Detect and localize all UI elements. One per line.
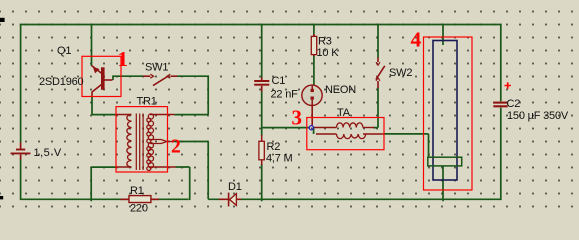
svg-text:C2: C2 <box>507 98 521 110</box>
selection box around Q1 <box>82 56 121 96</box>
wire left bus lower <box>20 159 22 199</box>
wire tube top lead <box>442 24 444 45</box>
wire TA to tube trigger band <box>384 134 429 157</box>
svg-text:R3: R3 <box>318 36 332 48</box>
capacitor C1 22nF <box>254 77 269 91</box>
wire TR1 mid pin to D1 via bottom <box>174 142 219 200</box>
wire Q1 base to SW1 <box>112 76 143 80</box>
resistor R3 10K <box>311 34 316 56</box>
svg-text:TR1: TR1 <box>137 96 157 108</box>
diode D1 <box>219 193 241 207</box>
wire D1 to C2 bottom bus <box>241 198 501 200</box>
capacitor C2 150uF 350V <box>493 103 507 107</box>
svg-text:1: 1 <box>118 47 129 71</box>
wire left bus upper <box>20 24 22 143</box>
wire SW1 to TR1 top-right pin <box>174 75 208 114</box>
resistor R1 220 <box>121 196 160 203</box>
wire R3 drop from bus <box>313 24 315 37</box>
svg-text:2SD1960: 2SD1960 <box>39 76 84 88</box>
wire R3 to NEON <box>313 55 315 85</box>
svg-text:2: 2 <box>171 137 181 158</box>
wire R2 column <box>261 128 263 202</box>
junction node (blue ring) at TA input <box>309 126 313 130</box>
wire Q1 collector drop <box>91 24 93 66</box>
svg-text:D1: D1 <box>228 181 242 193</box>
flash tube (item 4) glass envelope <box>433 41 457 181</box>
wire C2 riser bottom <box>500 108 502 201</box>
sheet edge tick top-left <box>0 18 5 22</box>
selection box around TR1 <box>116 107 168 172</box>
wire TR1 bottom-right pin riser <box>176 167 190 200</box>
svg-text:220: 220 <box>130 203 148 215</box>
polarity + of C2 <box>505 82 511 88</box>
svg-text:3: 3 <box>292 106 303 130</box>
wire C1 drop from bus <box>261 24 263 78</box>
wire Q1 emitter drop to TR1 top-left pin <box>91 96 116 115</box>
svg-text:Q1: Q1 <box>57 45 71 57</box>
wire C1 to junction node <box>262 91 310 128</box>
neon lamp NEON <box>302 85 322 125</box>
wire SW2 to TA top coil <box>373 88 378 128</box>
svg-text:150 µF 350V: 150 µF 350V <box>507 110 569 122</box>
svg-text:R2: R2 <box>267 141 281 153</box>
wire TR1 bottom-left pin riser <box>91 167 116 201</box>
svg-text:SW2: SW2 <box>389 67 412 79</box>
svg-text:NEON: NEON <box>325 84 356 96</box>
switch SW1 <box>143 74 177 85</box>
transformer TA symbol <box>314 123 384 139</box>
svg-text:4,7 M: 4,7 M <box>266 153 293 165</box>
resistor R2 4,7M <box>259 135 264 165</box>
svg-text:22 nF: 22 nF <box>271 89 299 101</box>
wire SW2 drop from bus <box>377 24 379 58</box>
switch SW2 <box>376 57 385 88</box>
svg-text:TA: TA <box>337 107 351 119</box>
flash tube trigger band <box>428 157 462 166</box>
transistor Q1 symbol <box>92 66 113 97</box>
wire TA bottom coil stub <box>313 128 315 134</box>
wire C2 riser top <box>500 24 502 102</box>
transformer TR1 symbol <box>116 114 176 171</box>
selection box around TA <box>307 118 384 150</box>
sheet edge tick bottom-left <box>0 196 3 199</box>
svg-text:SW1: SW1 <box>145 62 168 74</box>
svg-text:1,5 V: 1,5 V <box>34 147 62 159</box>
wire top bus <box>20 24 502 26</box>
svg-text:4: 4 <box>411 28 422 52</box>
selection box around flash tube <box>424 37 473 190</box>
wire bottom-left bus <box>20 198 189 200</box>
svg-text:10 K: 10 K <box>317 47 340 59</box>
battery BT 1,5V <box>11 142 31 159</box>
wire tube band to bottom bus <box>442 166 444 201</box>
svg-text:R1: R1 <box>130 185 144 197</box>
svg-text:C1: C1 <box>272 75 286 87</box>
